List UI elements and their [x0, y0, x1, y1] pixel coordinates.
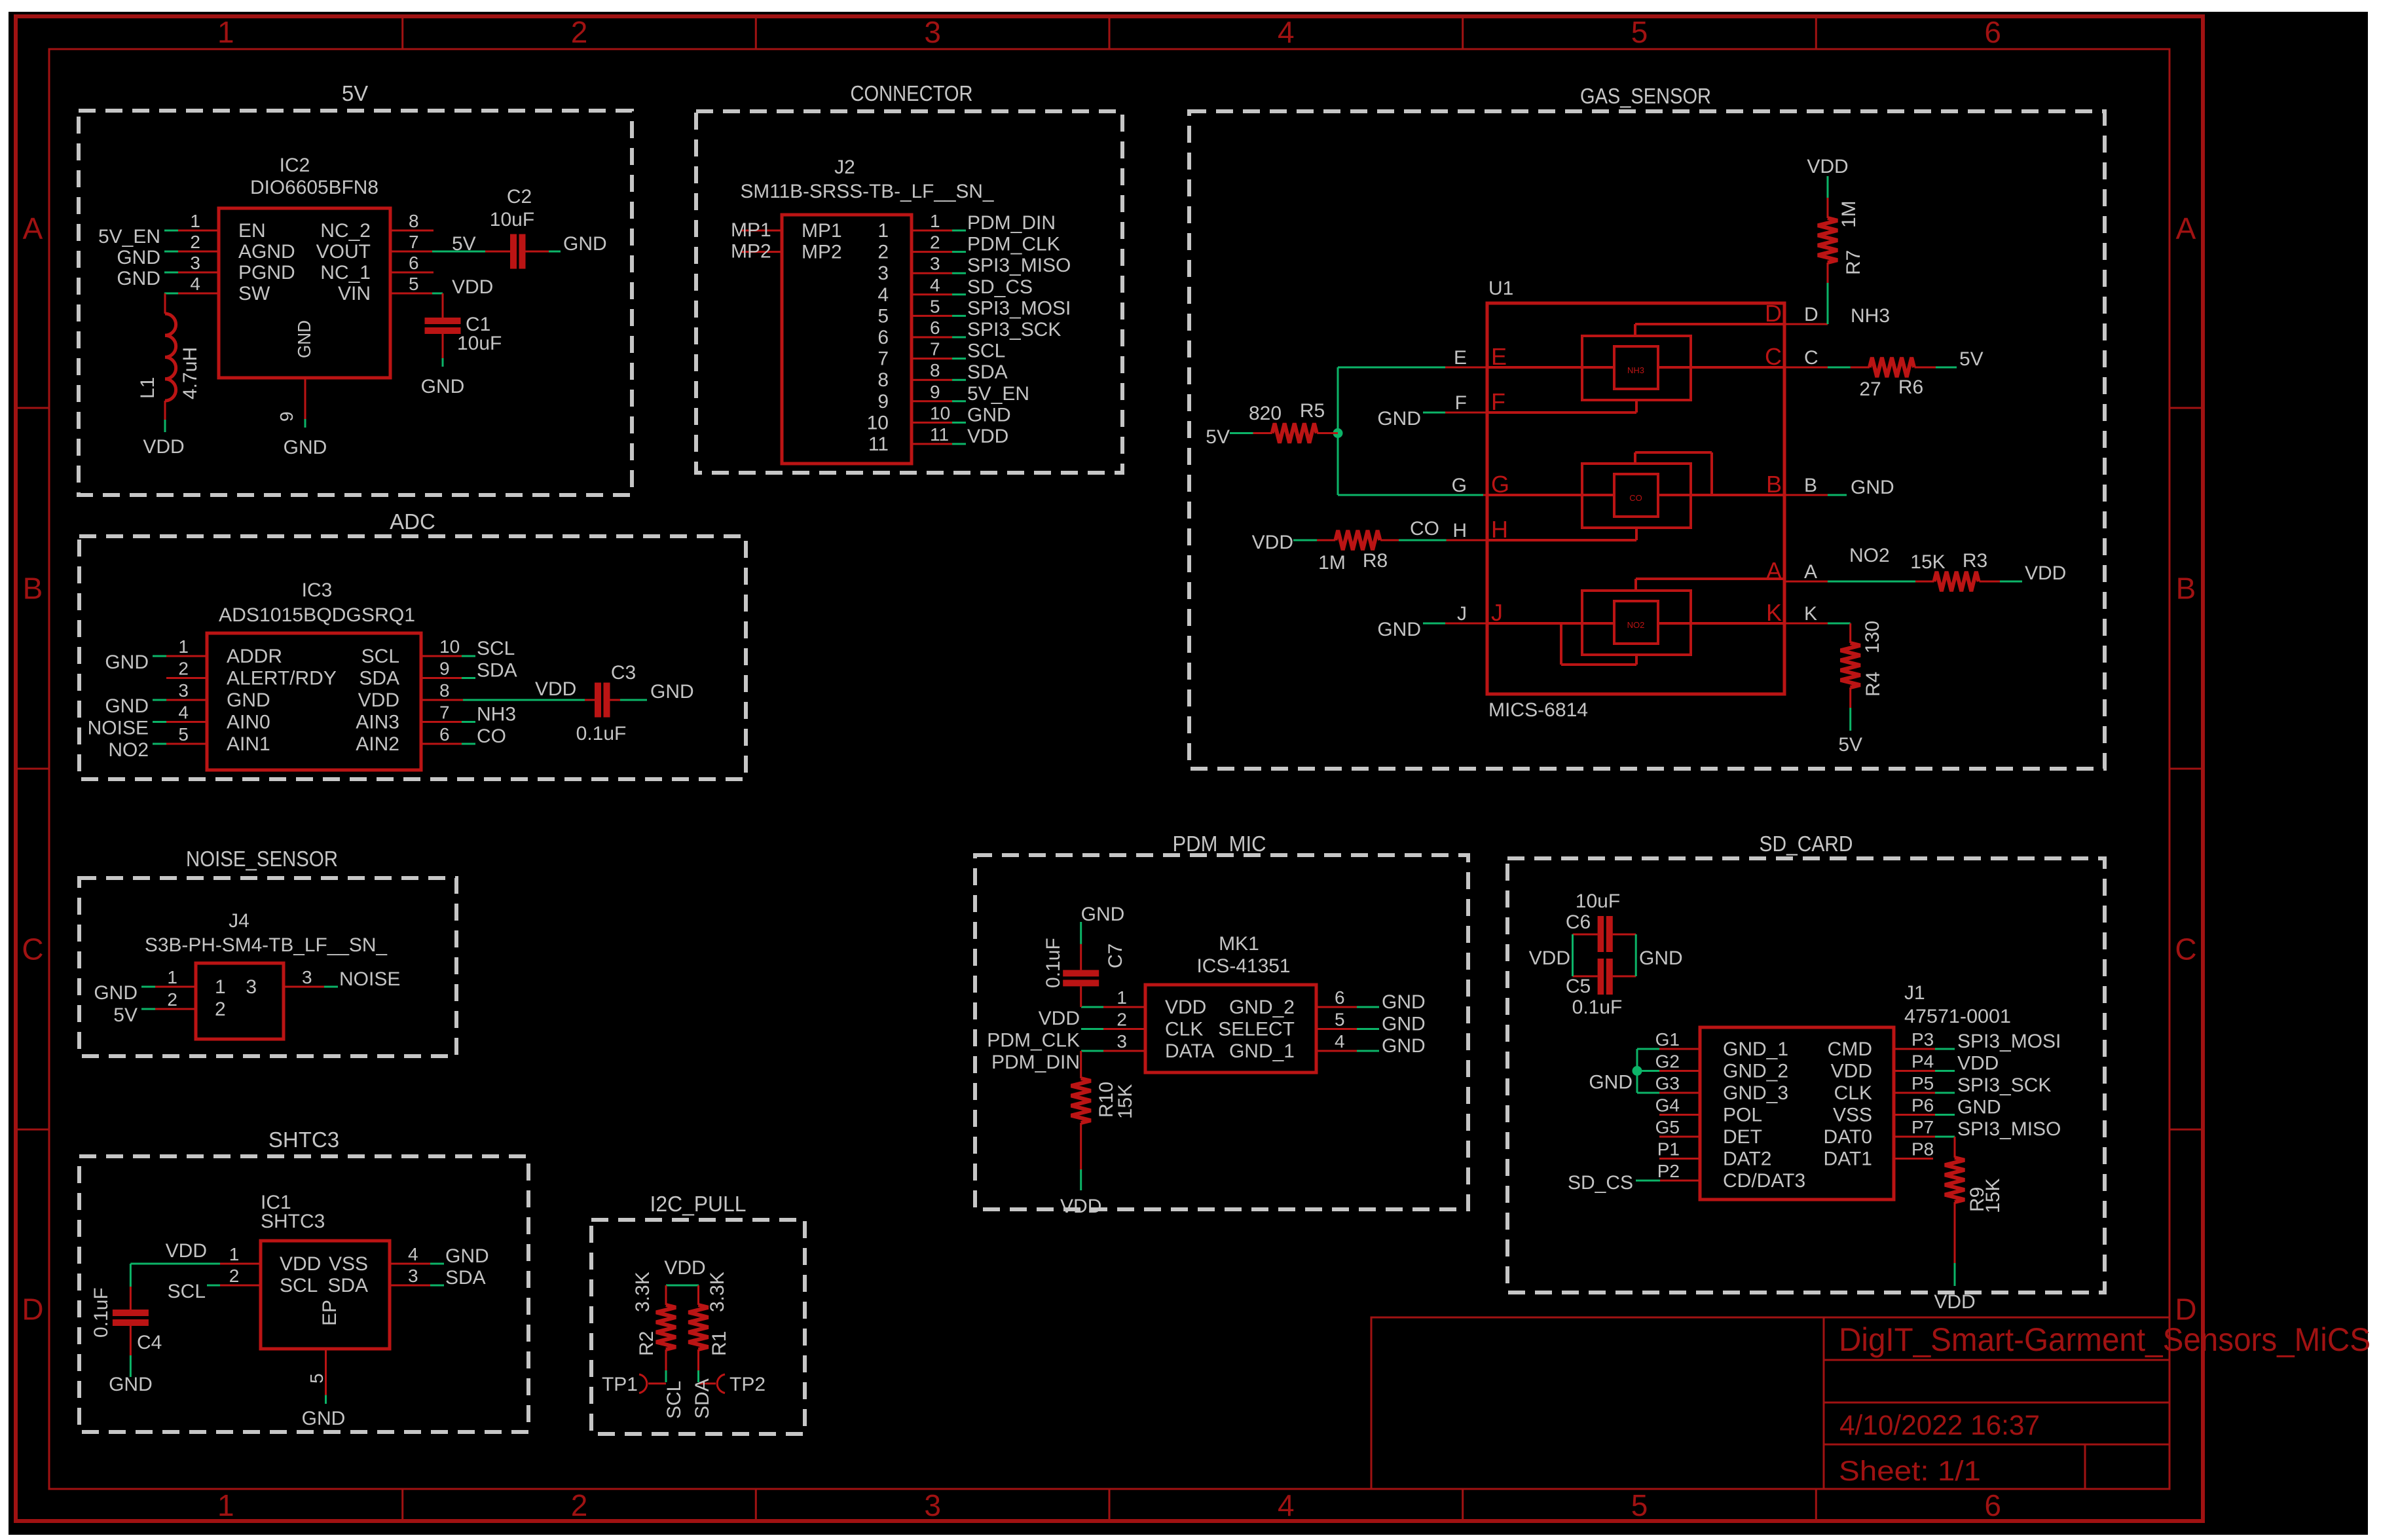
U1 F internal connection [1487, 411, 1636, 414]
svg-text:9: 9 [877, 391, 889, 412]
C5/C6 VDD side wires [1573, 934, 1598, 936]
svg-text:D: D [1765, 300, 1782, 327]
svg-text:J: J [1457, 603, 1467, 625]
resistor R6 27 [1870, 357, 1914, 377]
svg-text:9: 9 [439, 659, 450, 679]
U1 pin K / wire down to R4 [1784, 623, 1828, 625]
svg-text:AIN3: AIN3 [356, 712, 399, 733]
svg-text:A: A [1766, 557, 1782, 584]
svg-text:SPI3_MISO: SPI3_MISO [967, 255, 1071, 276]
svg-text:TP1: TP1 [602, 1374, 638, 1395]
svg-text:D: D [22, 1292, 43, 1327]
svg-text:4: 4 [1335, 1031, 1345, 1052]
resistor R1 3.3K [697, 1285, 699, 1305]
svg-text:EN: EN [238, 220, 266, 242]
svg-text:GND: GND [105, 651, 149, 673]
svg-text:3: 3 [877, 263, 889, 284]
svg-text:NH3: NH3 [1627, 365, 1644, 375]
J4 pin 2 / net 5V [155, 1008, 196, 1010]
U1 pin F stub / net GND [1445, 412, 1487, 414]
svg-text:U1: U1 [1488, 278, 1513, 299]
svg-text:GND: GND [1377, 408, 1421, 430]
svg-text:CONNECTOR: CONNECTOR [851, 81, 973, 105]
svg-text:4.7uH: 4.7uH [179, 347, 201, 399]
J1 47571-0001 body [1700, 1027, 1894, 1200]
svg-text:C7: C7 [1105, 944, 1126, 968]
svg-text:DET: DET [1723, 1126, 1762, 1148]
svg-text:L1: L1 [137, 377, 158, 399]
J1 pin G2 GND_2 [1659, 1070, 1700, 1072]
frame column divider [1815, 1489, 1817, 1521]
IC3 pin 6 AIN2 [421, 743, 462, 745]
svg-text:SDA: SDA [477, 660, 517, 682]
svg-text:1: 1 [217, 15, 234, 49]
svg-text:R6: R6 [1898, 376, 1923, 398]
svg-text:GND: GND [227, 689, 270, 711]
svg-text:P8: P8 [1911, 1139, 1934, 1160]
svg-text:4: 4 [877, 284, 889, 306]
wire VDD net IC3 pin8 to C3 [463, 699, 585, 701]
svg-text:4: 4 [190, 274, 200, 294]
wire 5V net IC2 pin7 to C2 [432, 251, 485, 253]
U1 J bottom staircase [1635, 655, 1638, 665]
section NOISE_SENSOR dashed box [79, 878, 456, 1056]
svg-text:3.3K: 3.3K [632, 1272, 654, 1312]
resistor R2 3.3K [665, 1285, 667, 1305]
svg-text:A: A [23, 211, 43, 246]
svg-text:4: 4 [178, 703, 189, 723]
svg-text:GND_3: GND_3 [1723, 1082, 1788, 1104]
svg-text:NC_1: NC_1 [320, 262, 371, 284]
J2 pin 7 / net SCL [912, 357, 952, 359]
wire C4 bottom [130, 1324, 132, 1355]
svg-text:P3: P3 [1911, 1029, 1934, 1050]
svg-text:R3: R3 [1963, 550, 1987, 572]
svg-text:130: 130 [1862, 621, 1883, 653]
svg-text:NO2: NO2 [1849, 545, 1890, 566]
svg-text:GND: GND [109, 1374, 153, 1395]
svg-text:3: 3 [302, 967, 312, 987]
svg-text:SHTC3: SHTC3 [261, 1211, 325, 1232]
svg-text:3: 3 [1117, 1031, 1127, 1052]
frame row divider [2169, 407, 2203, 409]
svg-text:DigIT_Smart-Garment_Sensors_Mi: DigIT_Smart-Garment_Sensors_MiCS [1839, 1321, 2371, 1358]
IC3 pin 10 SCL [421, 655, 462, 657]
svg-text:IC3: IC3 [302, 579, 333, 601]
svg-text:15K: 15K [1982, 1179, 2004, 1213]
svg-text:1: 1 [229, 1244, 240, 1264]
svg-text:NO2: NO2 [1627, 620, 1645, 630]
svg-text:2: 2 [190, 232, 200, 252]
svg-text:GND: GND [117, 268, 160, 289]
svg-text:GND: GND [563, 233, 607, 255]
svg-text:GND_2: GND_2 [1229, 997, 1295, 1018]
svg-text:9: 9 [930, 382, 940, 402]
junction node R5/E/G [1333, 428, 1343, 438]
svg-text:MK1: MK1 [1219, 933, 1259, 955]
svg-text:DATA: DATA [1165, 1040, 1215, 1062]
svg-text:2: 2 [167, 989, 177, 1010]
J2 SM11B-SRSS-TB-_LF__SN_ body [782, 215, 912, 464]
U1 CO sensor block [1582, 464, 1691, 528]
svg-text:J: J [1491, 599, 1503, 626]
svg-text:GND: GND [1639, 947, 1683, 969]
svg-text:GND_1: GND_1 [1229, 1040, 1295, 1062]
svg-text:SD_CS: SD_CS [1568, 1172, 1633, 1194]
svg-text:G3: G3 [1655, 1073, 1680, 1093]
U1 pin H / resistor R8 1M / net VDD CO [1447, 540, 1488, 541]
svg-text:ADS1015BQDGSRQ1: ADS1015BQDGSRQ1 [219, 604, 415, 626]
MK1 pin 5 SELECT / net GND [1316, 1028, 1357, 1030]
svg-text:3: 3 [246, 976, 257, 998]
svg-text:5V: 5V [1206, 426, 1230, 448]
svg-text:SCL: SCL [280, 1275, 318, 1296]
svg-text:F: F [1491, 388, 1505, 415]
svg-text:5V: 5V [113, 1004, 138, 1026]
svg-text:8: 8 [409, 211, 419, 231]
svg-text:GND: GND [284, 437, 327, 458]
svg-text:VSS: VSS [329, 1253, 368, 1275]
svg-text:3.3K: 3.3K [707, 1272, 728, 1312]
svg-text:8: 8 [439, 680, 450, 701]
svg-text:SDA: SDA [445, 1267, 486, 1289]
svg-text:SCL: SCL [361, 646, 399, 667]
frame column divider [401, 1489, 403, 1521]
svg-text:3: 3 [924, 1488, 941, 1522]
svg-text:VDD: VDD [1039, 1008, 1080, 1029]
frame row divider [2169, 768, 2203, 770]
svg-text:10: 10 [867, 412, 889, 433]
svg-text:NOISE: NOISE [339, 968, 400, 990]
svg-text:VDD: VDD [280, 1253, 321, 1275]
svg-text:SELECT: SELECT [1218, 1019, 1295, 1040]
J1 pin G1 GND_1 [1659, 1048, 1700, 1050]
svg-text:A: A [1804, 561, 1817, 583]
J1 pin P5 CLK [1894, 1092, 1935, 1094]
MK1 pin 4 GND_1 / net GND [1316, 1050, 1357, 1052]
svg-text:GND: GND [1382, 1014, 1426, 1035]
svg-text:5: 5 [1335, 1010, 1345, 1030]
svg-text:PDM_DIN: PDM_DIN [967, 212, 1056, 234]
svg-text:MICS-6814: MICS-6814 [1488, 699, 1588, 721]
U1 pin D stub / wire up to R7 / net NH3 [1784, 323, 1828, 325]
section SD_CARD dashed box [1507, 858, 2105, 1292]
IC2 pin 4 SW [178, 293, 219, 295]
svg-text:E: E [1491, 343, 1507, 370]
title block row line 2 [1824, 1402, 2169, 1404]
svg-text:15K: 15K [1115, 1084, 1136, 1119]
svg-text:VDD: VDD [1252, 532, 1293, 553]
J1 pin P4 VDD [1894, 1070, 1935, 1072]
J1 pin G3 GND_3 [1659, 1092, 1700, 1094]
J1 pin G5 DET [1659, 1136, 1700, 1138]
svg-text:VDD: VDD [1831, 1061, 1872, 1082]
svg-text:ICS-41351: ICS-41351 [1197, 955, 1291, 977]
MK1 pin 3 DATA / net PDM_DIN [1103, 1050, 1145, 1052]
capacitor C5 0.1uF [1598, 959, 1604, 995]
svg-text:SCL: SCL [477, 638, 515, 659]
svg-text:R2: R2 [636, 1331, 657, 1356]
svg-text:11: 11 [930, 424, 949, 445]
svg-text:MP1: MP1 [802, 220, 842, 242]
svg-text:10uF: 10uF [490, 209, 534, 230]
IC2 pin 6 NC_1 [390, 272, 434, 274]
svg-text:5V: 5V [452, 233, 476, 255]
svg-text:NOISE: NOISE [88, 718, 149, 739]
svg-text:NOISE_SENSOR: NOISE_SENSOR [186, 847, 338, 871]
U1 A internal connection [1636, 577, 1784, 580]
svg-text:15K: 15K [1910, 551, 1945, 573]
svg-text:G: G [1452, 475, 1467, 496]
svg-text:K: K [1804, 603, 1817, 625]
svg-text:DAT2: DAT2 [1723, 1148, 1771, 1170]
IC1 pin 5 EP bottom / net GND [325, 1349, 327, 1395]
title block [1371, 1317, 2169, 1489]
wire L1 bottom [164, 401, 166, 420]
svg-text:NC_2: NC_2 [320, 220, 371, 242]
svg-text:2: 2 [571, 15, 588, 49]
svg-text:GND: GND [1377, 619, 1421, 640]
svg-text:PDM_MIC: PDM_MIC [1173, 832, 1266, 856]
section GAS_SENSOR dashed box [1189, 111, 2105, 769]
svg-text:1: 1 [190, 211, 200, 231]
svg-text:6: 6 [1984, 15, 2001, 49]
J2 pin 1 / net PDM_DIN [912, 230, 952, 232]
svg-text:GND: GND [1957, 1097, 2001, 1118]
svg-text:SCL: SCL [663, 1381, 685, 1419]
J2 pin 4 / net SD_CS [912, 293, 952, 295]
svg-text:0.1uF: 0.1uF [1043, 938, 1064, 988]
svg-text:PGND: PGND [238, 262, 295, 284]
svg-text:MP2: MP2 [731, 241, 771, 263]
svg-text:2: 2 [215, 999, 226, 1020]
svg-text:P6: P6 [1911, 1095, 1934, 1116]
svg-text:B: B [23, 572, 43, 606]
capacitor C3 0.1uF [595, 683, 601, 718]
svg-text:G2: G2 [1655, 1052, 1680, 1072]
svg-text:VDD: VDD [1165, 997, 1206, 1018]
svg-text:C: C [1804, 347, 1818, 369]
IC1 pin 1 VDD [220, 1263, 261, 1265]
section ADC dashed box [79, 536, 746, 779]
svg-text:VDD: VDD [143, 436, 184, 458]
svg-text:11: 11 [868, 433, 889, 455]
J1 pin P8 DAT1 [1894, 1158, 1933, 1160]
J2 pin 5 / net SPI3_MOSI [912, 315, 952, 317]
svg-text:3: 3 [924, 15, 941, 49]
IC3 pin 5 AIN1 [166, 743, 207, 745]
svg-text:47571-0001: 47571-0001 [1904, 1006, 2011, 1027]
svg-text:SD_CARD: SD_CARD [1760, 832, 1853, 856]
frame column divider [1462, 16, 1464, 49]
svg-text:6: 6 [409, 253, 419, 273]
svg-text:PDM_DIN: PDM_DIN [991, 1052, 1080, 1073]
svg-text:G5: G5 [1655, 1117, 1680, 1137]
svg-text:7: 7 [877, 348, 889, 370]
section I2C_PULL dashed box [591, 1220, 805, 1434]
svg-text:VDD: VDD [1957, 1053, 1999, 1074]
MK1 pin 1 VDD [1103, 1006, 1145, 1008]
svg-text:R5: R5 [1300, 400, 1325, 422]
J2 pin 2 / net PDM_CLK [912, 251, 952, 253]
svg-text:G1: G1 [1655, 1029, 1680, 1050]
MK1 pin 2 CLK / net PDM_CLK [1103, 1028, 1145, 1030]
svg-text:ADDR: ADDR [227, 646, 282, 667]
svg-text:5: 5 [930, 296, 940, 316]
J4 S3B-PH-SM4-TB_LF__SN_ body [196, 963, 284, 1039]
svg-text:C: C [22, 932, 43, 966]
J4 pin 1 / net GND [155, 986, 196, 988]
svg-text:2: 2 [229, 1266, 240, 1286]
svg-text:GND: GND [421, 376, 465, 397]
svg-text:1: 1 [1117, 987, 1127, 1008]
MK1 ICS-41351 body [1145, 985, 1316, 1072]
svg-text:GND: GND [1081, 904, 1125, 925]
svg-text:7: 7 [439, 703, 450, 723]
svg-text:2: 2 [877, 242, 889, 263]
svg-text:AGND: AGND [238, 241, 295, 263]
C5/C6 GND side wires [1613, 934, 1636, 936]
svg-text:8: 8 [877, 369, 889, 391]
U1 pin C / resistor R6 27 / net 5V [1784, 367, 1828, 369]
svg-text:820: 820 [1249, 403, 1282, 424]
svg-text:10uF: 10uF [1576, 890, 1620, 912]
svg-text:0.1uF: 0.1uF [576, 723, 627, 744]
svg-text:7: 7 [930, 339, 940, 359]
svg-text:GND: GND [1851, 477, 1894, 498]
IC2 pin 2 AGND / net GND [178, 251, 219, 253]
svg-text:1: 1 [215, 976, 226, 998]
svg-text:6: 6 [1984, 1488, 2001, 1522]
svg-text:CMD: CMD [1828, 1038, 1872, 1060]
svg-text:A: A [2176, 211, 2196, 246]
svg-text:3: 3 [408, 1266, 418, 1286]
svg-text:ALERT/RDY: ALERT/RDY [227, 668, 337, 689]
svg-text:3: 3 [178, 680, 189, 701]
IC3 pin 3 GND [166, 699, 207, 701]
svg-text:TP2: TP2 [729, 1374, 766, 1395]
svg-text:B: B [1804, 475, 1817, 496]
svg-text:AIN0: AIN0 [227, 712, 270, 733]
J1 pin P2 CD/DAT3 [1660, 1180, 1700, 1182]
U1 pin B stub / net GND [1784, 494, 1828, 496]
J2 pin 9 / net 5V_EN [912, 400, 952, 402]
svg-text:DIO6605BFN8: DIO6605BFN8 [250, 177, 378, 198]
test point TP2 [699, 1383, 716, 1385]
svg-text:C4: C4 [137, 1332, 162, 1353]
svg-text:J2: J2 [834, 156, 855, 178]
svg-text:VOUT: VOUT [316, 241, 371, 263]
svg-text:VSS: VSS [1833, 1105, 1872, 1126]
svg-text:SCL: SCL [168, 1281, 206, 1302]
frame row divider [16, 407, 49, 409]
svg-text:VDD: VDD [358, 689, 399, 711]
svg-text:H: H [1452, 520, 1467, 541]
wire C1 bottom [442, 334, 444, 358]
svg-text:GAS_SENSOR: GAS_SENSOR [1580, 84, 1711, 108]
J2 pin 8 / net SDA [912, 379, 952, 381]
svg-text:1: 1 [178, 636, 189, 657]
IC3 ADS1015BQDGSRQ1 body [207, 633, 421, 770]
svg-text:5: 5 [178, 724, 189, 744]
IC2 pin 1 EN / net 5V_EN [178, 230, 219, 232]
U1 D internal connection [1635, 323, 1784, 325]
svg-text:0.1uF: 0.1uF [90, 1287, 112, 1338]
svg-text:1M: 1M [1318, 552, 1346, 574]
wire C3 right [610, 699, 621, 701]
svg-text:C: C [2175, 932, 2196, 966]
svg-text:SPI3_SCK: SPI3_SCK [967, 319, 1061, 340]
svg-text:GND: GND [302, 1408, 346, 1429]
svg-text:GND_1: GND_1 [1723, 1038, 1788, 1060]
J2 pin 11 / net VDD [912, 443, 952, 445]
svg-text:8: 8 [930, 360, 940, 380]
J2 pin 6 / net SPI3_SCK [912, 337, 952, 339]
svg-text:5V_EN: 5V_EN [98, 226, 160, 247]
svg-text:4: 4 [1278, 15, 1295, 49]
frame row divider [2169, 1129, 2203, 1131]
frame column divider [1462, 1489, 1464, 1521]
svg-text:P5: P5 [1911, 1073, 1934, 1093]
svg-text:K: K [1766, 599, 1782, 626]
wire IC2 pin4 to L1 [165, 293, 178, 295]
U1 MICS-6814 body [1487, 303, 1784, 694]
svg-text:DAT1: DAT1 [1824, 1148, 1872, 1170]
J1 pin P6 VSS [1894, 1114, 1935, 1116]
U1 H internal connection [1487, 539, 1636, 541]
svg-text:SD_CS: SD_CS [967, 276, 1033, 298]
capacitor C1 10uF [425, 318, 461, 324]
svg-text:2: 2 [1117, 1010, 1127, 1030]
svg-text:P7: P7 [1911, 1117, 1934, 1137]
U1 B top staircase [1635, 451, 1712, 454]
vertical wire E-G with junction [1337, 367, 1339, 495]
svg-text:5V: 5V [1838, 734, 1862, 756]
IC1 SHTC3 body [261, 1241, 390, 1349]
svg-text:6: 6 [930, 318, 940, 338]
svg-text:GND: GND [650, 681, 694, 703]
svg-text:VDD: VDD [1807, 156, 1848, 177]
svg-text:1: 1 [930, 211, 940, 231]
svg-text:Sheet: 1/1: Sheet: 1/1 [1839, 1456, 1981, 1487]
U1 internal line E-C [1487, 366, 1784, 369]
svg-text:B: B [1766, 471, 1782, 498]
svg-text:POL: POL [1723, 1105, 1762, 1126]
IC2 DIO6605BFN8 body [219, 208, 390, 378]
IC1 pin 3 SDA / net SDA [390, 1285, 430, 1287]
frame column divider [1109, 1489, 1111, 1521]
IC2 pin 9 GND bottom [305, 378, 306, 419]
svg-text:CLK: CLK [1834, 1082, 1872, 1104]
svg-text:5V: 5V [1959, 348, 1984, 370]
svg-text:7: 7 [409, 232, 419, 252]
resistor R10 15K vertical [1080, 1051, 1082, 1078]
svg-text:B: B [2176, 572, 2196, 606]
svg-text:SHTC3: SHTC3 [268, 1127, 339, 1152]
svg-text:4: 4 [408, 1244, 418, 1264]
svg-text:E: E [1454, 347, 1467, 369]
svg-text:1M: 1M [1838, 200, 1860, 228]
section SHTC3 dashed box [79, 1156, 528, 1432]
svg-text:5V_EN: 5V_EN [967, 383, 1029, 405]
frame row divider [16, 1129, 49, 1131]
IC2 pin 7 VOUT / net 5V [390, 251, 432, 253]
svg-text:CD/DAT3: CD/DAT3 [1723, 1170, 1805, 1192]
svg-text:1: 1 [167, 967, 177, 987]
svg-text:S3B-PH-SM4-TB_LF__SN_: S3B-PH-SM4-TB_LF__SN_ [145, 934, 388, 956]
svg-text:GND: GND [294, 320, 314, 358]
svg-text:CO: CO [1629, 493, 1642, 503]
